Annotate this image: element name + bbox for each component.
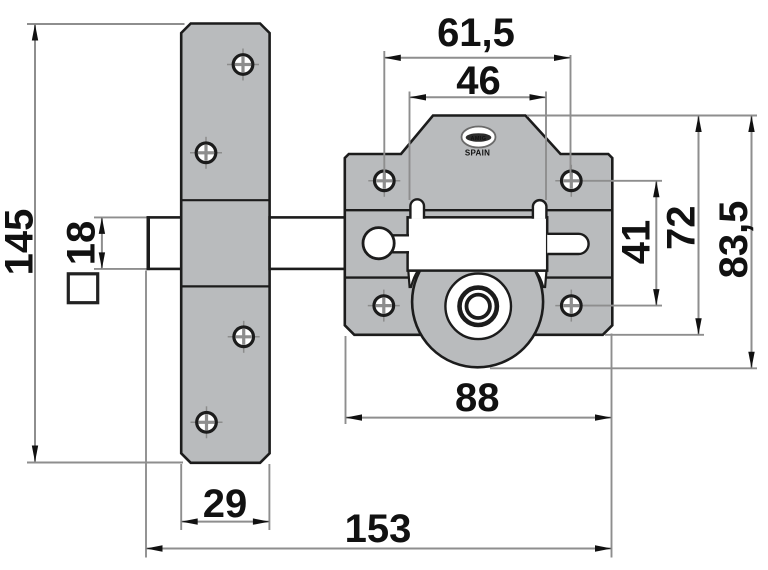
ext strip top [27,23,185,25]
slider wedge left [408,271,418,287]
ext 83,5 bottom (rosette tangent) [490,367,757,369]
ext 29 right [268,464,270,530]
screw hole body BR [555,290,587,322]
ext 153 left [145,271,147,558]
strike plate (vertical strip) [181,24,269,463]
lock body [345,116,613,335]
ext 61,5 right [570,55,572,177]
ext 88 left [345,336,347,424]
ext 41 bottom [583,305,662,307]
dimension 72 [660,116,704,335]
ext 41 top [583,180,662,182]
ext bolt bottom (18) [94,268,147,270]
svg-text:83,5: 83,5 [712,201,756,279]
screw hole strip 1 [227,49,259,81]
svg-text:145: 145 [0,209,42,276]
slider block [408,217,548,270]
ext 153/88 right [611,334,613,558]
ext bolt top (18) [94,216,147,218]
ext 72 bottom [605,334,704,336]
screw hole strip 4 [191,406,223,438]
svg-text:153: 153 [345,507,412,551]
dimension 153 [146,507,612,552]
rosette ring inner [467,295,490,318]
svg-text:SPAIN: SPAIN [465,149,490,158]
bolt right segment [270,217,345,269]
brand logo [462,127,496,158]
channel top line [345,209,613,211]
bolt tongue in slot [547,234,588,254]
svg-text:41: 41 [615,220,659,265]
dimension 88 [346,376,612,421]
ext strip bottom [27,462,183,464]
guide notch right [533,200,547,219]
square section symbol [68,274,97,303]
rosette ring outer [460,288,497,325]
svg-text:88: 88 [455,376,500,420]
dimension 18 [60,217,106,269]
screw hole strip 3 [228,321,260,353]
screw hole strip 2 [190,137,222,169]
dimension 145 [0,24,42,462]
ext body top right [527,115,757,117]
ext 61,5 left [383,51,385,177]
screw hole body TR [555,165,587,197]
bolt left end cap [147,216,150,270]
keeper bottom edge line [181,285,269,287]
dimension 46 [410,59,547,103]
ext 46 left [409,92,411,201]
svg-text:AMIG: AMIG [471,136,487,142]
slider wedge right [535,271,546,287]
bolt left segment [148,217,181,269]
channel bottom line [345,276,613,278]
rosette disc [412,236,543,367]
dimension 83,5 [712,116,756,369]
keeper top edge line [181,199,269,201]
svg-text:72: 72 [660,205,704,250]
svg-text:46: 46 [456,59,501,103]
svg-text:18: 18 [60,221,104,266]
ext 46 right [545,92,547,201]
dimension 61,5 [384,11,570,61]
svg-text:29: 29 [203,482,248,526]
dimension 41 [615,181,660,306]
ext 29 left [180,464,182,530]
rosette white disc [445,274,511,340]
screw hole body TL [368,165,400,197]
dimension 29 [181,482,269,526]
knob circle [363,228,394,259]
svg-text:61,5: 61,5 [437,11,515,55]
guide notch left [410,199,424,218]
screw hole body BL [368,290,400,322]
knob neck [390,237,409,252]
